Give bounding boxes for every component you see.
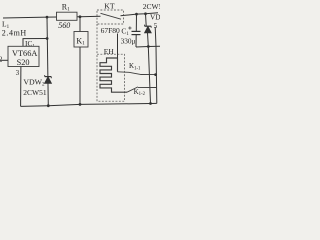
svg-text:EH: EH bbox=[104, 47, 115, 56]
svg-text:R1: R1 bbox=[62, 2, 70, 12]
svg-text:5: 5 bbox=[154, 22, 158, 30]
contact K1-2 bbox=[127, 87, 157, 92]
svg-text:330μ: 330μ bbox=[121, 37, 136, 46]
dashed linkage left bbox=[96, 24, 98, 54]
wire right rail bbox=[155, 27, 157, 103]
thermostat KT blade bbox=[101, 13, 122, 19]
svg-text:67F80: 67F80 bbox=[101, 26, 120, 35]
svg-text:2CW5: 2CW5 bbox=[143, 2, 160, 11]
wire relay K1 coil branch bbox=[79, 17, 81, 105]
wire zener VDW2 branch bbox=[47, 17, 48, 106]
capacitor C1 plates bbox=[132, 31, 141, 34]
heater EH dashed box bbox=[97, 54, 125, 101]
wire top rail right section bbox=[121, 13, 159, 16]
svg-text:C1: C1 bbox=[121, 27, 129, 37]
thermostat KT dashed box bbox=[97, 10, 124, 24]
zener VD1 symbol bbox=[145, 25, 152, 33]
svg-text:2: 2 bbox=[0, 56, 3, 64]
wire top rail left section bbox=[3, 16, 101, 18]
wire IC pin3 to bottom rail bbox=[20, 67, 22, 107]
wire IC pin2 stub bbox=[0, 59, 8, 61]
svg-text:S20: S20 bbox=[17, 58, 30, 67]
heater EH meander element bbox=[100, 58, 127, 92]
wire C1 branch vertical bbox=[135, 14, 138, 47]
svg-text:VDW2: VDW2 bbox=[23, 77, 45, 87]
wire bottom rail bbox=[21, 103, 157, 106]
relay K1 coil box bbox=[74, 32, 88, 48]
svg-text:K1-2: K1-2 bbox=[134, 88, 146, 97]
svg-text:3: 3 bbox=[16, 69, 20, 77]
svg-text:2.4mH: 2.4mH bbox=[2, 29, 27, 38]
svg-text:2CW51: 2CW51 bbox=[23, 88, 47, 97]
junction dots bbox=[46, 12, 157, 107]
wire EH feed vertical bbox=[117, 34, 119, 59]
svg-text:K1-1: K1-1 bbox=[129, 62, 141, 71]
IC U1 box VT66A S20 bbox=[8, 46, 39, 66]
resistor R1 box bbox=[57, 12, 78, 20]
wire C1 bottom horizontal to right edge bbox=[136, 45, 160, 48]
zener VDW2 symbol bbox=[45, 75, 52, 83]
svg-text:KT: KT bbox=[104, 2, 115, 11]
svg-text:560: 560 bbox=[58, 21, 70, 30]
wire zener VD1 branch bbox=[146, 14, 151, 104]
wire IC pin1 top to node A bbox=[23, 39, 47, 47]
contact K1-1 bbox=[118, 72, 156, 75]
capacitor C1 plus sign bbox=[128, 26, 131, 29]
